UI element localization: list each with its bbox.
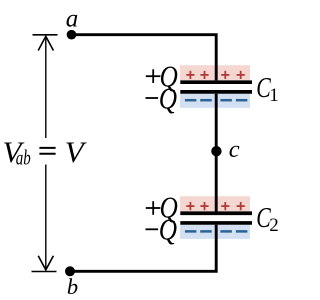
capacitor C2 minus charges — [185, 230, 248, 233]
node c — [211, 146, 221, 156]
wire from node a to capacitor C1 top plate — [71, 35, 216, 81]
voltage arrowhead up — [38, 36, 53, 50]
capacitor C2 positive-charge strip — [180, 196, 250, 211]
voltage arrow bottom tick — [32, 271, 57, 273]
capacitor C2 plus charges — [186, 202, 245, 210]
label -Q of C2 — [146, 228, 159, 230]
capacitor C1 bottom plate — [180, 90, 252, 94]
capacitor C2 bottom plate — [180, 221, 252, 225]
voltage arrow top tick — [33, 34, 58, 36]
node a — [67, 30, 77, 40]
capacitor C1 plus charges — [186, 71, 245, 79]
svg-text:a: a — [66, 6, 79, 33]
wire from C1 bottom plate to C2 top plate through node c — [215, 94, 218, 212]
wire from C2 bottom plate to node b — [70, 225, 216, 271]
capacitor C2 top plate — [180, 211, 252, 215]
svg-text:Q: Q — [159, 212, 177, 247]
capacitor C1 negative-charge strip — [180, 94, 250, 108]
label +Q of C1 — [146, 75, 161, 77]
voltage arrowhead down — [38, 256, 53, 270]
capacitor C1 minus charges — [185, 99, 248, 102]
capacitor C2 negative-charge strip — [180, 225, 250, 239]
label +Q of C2 — [146, 207, 161, 209]
node b — [65, 266, 75, 276]
voltage double arrow shaft — [45, 37, 47, 139]
label -Q of C1 — [146, 97, 159, 99]
capacitor C1 positive-charge strip — [180, 65, 250, 80]
svg-text:c: c — [229, 136, 240, 163]
svg-text:b: b — [67, 274, 78, 299]
svg-text:1: 1 — [269, 85, 279, 106]
svg-text:2: 2 — [269, 215, 279, 236]
svg-text:ab: ab — [16, 145, 31, 169]
svg-text:Q: Q — [159, 81, 177, 116]
capacitor C1 top plate — [180, 80, 252, 84]
